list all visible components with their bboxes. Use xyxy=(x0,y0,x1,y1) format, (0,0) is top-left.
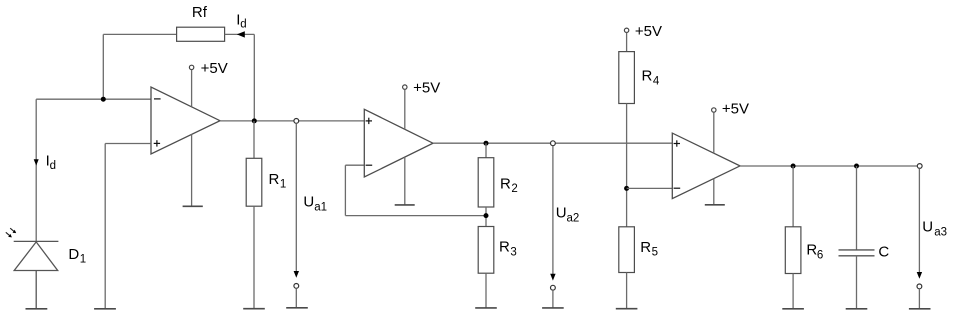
label R3 xyxy=(499,239,517,259)
wire U1 plus input to ground xyxy=(104,144,106,309)
U2 minus pin xyxy=(366,164,373,166)
label D1 xyxy=(68,246,86,266)
ground below R5 xyxy=(616,308,638,310)
junction node A dot xyxy=(101,97,106,102)
node Ua3 terminal circle xyxy=(917,164,922,169)
label Ua2 xyxy=(556,205,580,225)
junction dot output U2 xyxy=(484,141,489,146)
wire to R6 xyxy=(792,166,794,227)
junction node B dot xyxy=(624,186,629,191)
label +5V (U2) xyxy=(413,80,440,97)
junction dot R2/R3 xyxy=(484,213,489,218)
label R4 xyxy=(642,68,660,88)
svg-text:D: D xyxy=(68,246,79,263)
svg-text:d: d xyxy=(240,19,246,31)
wire node B to U3 inverting input xyxy=(627,187,673,189)
wire Ua1 measure line xyxy=(295,123,297,271)
ground below U1 plus wire xyxy=(94,308,116,310)
ground below Ua2 xyxy=(542,307,564,309)
svg-text:d: d xyxy=(50,160,56,172)
svg-text:R: R xyxy=(640,239,651,256)
U2 plus pin xyxy=(366,118,372,124)
ground below D1 xyxy=(26,308,48,310)
label +5V (U1) xyxy=(201,60,228,77)
ground below R3 xyxy=(475,307,497,309)
wire feedback vertical up xyxy=(102,34,104,99)
node Ua1 terminal circle xyxy=(294,119,299,124)
resistor R6 xyxy=(785,227,801,274)
svg-text:R: R xyxy=(500,175,511,192)
ground below C xyxy=(846,308,868,310)
ground below R1 xyxy=(243,308,265,310)
wire Ua2 bottom to ground xyxy=(552,290,554,307)
wire R5 to ground xyxy=(626,273,628,309)
wire U1 to ground xyxy=(191,134,193,206)
svg-text:4: 4 xyxy=(653,76,660,88)
svg-text:R: R xyxy=(499,239,510,256)
label Ua3 xyxy=(922,219,947,239)
wire U2 to ground xyxy=(404,157,406,205)
label Id (top) xyxy=(236,12,246,31)
svg-text:Rf: Rf xyxy=(192,4,208,21)
U1 +5V supply circle xyxy=(189,65,193,69)
arrow Ua3 down xyxy=(917,272,922,279)
terminal circle Ua2 bottom xyxy=(551,285,556,290)
wire U2 feedback from inverting input xyxy=(345,165,486,215)
wire U1 supply xyxy=(191,70,193,107)
ground below Ua1 xyxy=(286,307,308,309)
label R1 xyxy=(269,171,287,191)
wire R4 down across input to node B xyxy=(626,104,628,227)
wire R1 to ground xyxy=(253,206,255,308)
ground below U1 xyxy=(183,205,203,207)
resistor R1 xyxy=(246,158,262,206)
arrow Id into Rf (points left) xyxy=(237,31,245,37)
op-amp U1 xyxy=(151,87,220,154)
svg-text:a2: a2 xyxy=(567,212,580,224)
ground below Ua3 xyxy=(909,308,931,310)
label +5V (R4) xyxy=(635,23,662,40)
wire Rf right to vertical xyxy=(225,33,255,35)
svg-text:+5V: +5V xyxy=(413,80,440,97)
svg-text:R: R xyxy=(642,68,653,85)
light arrow 1 into D1 xyxy=(10,228,16,233)
terminal circle Ua3 bottom xyxy=(917,284,922,289)
label R6 xyxy=(806,242,823,262)
op-amp U2 xyxy=(364,109,433,177)
U3 +5V supply circle xyxy=(712,108,716,112)
arrow Id current down xyxy=(34,159,39,165)
wire to R2 xyxy=(485,143,487,158)
wire Ua3 measure line xyxy=(918,168,920,272)
resistor R5 xyxy=(619,227,635,273)
U1 minus pin xyxy=(154,98,161,100)
U3 minus pin xyxy=(674,187,681,189)
resistor R2 xyxy=(478,158,494,207)
terminal circle Ua1 bottom xyxy=(294,284,299,289)
wire feedback right vertical down to output node xyxy=(253,34,255,121)
wire R3 to ground xyxy=(485,273,487,307)
svg-text:5: 5 xyxy=(652,247,658,259)
svg-text:a3: a3 xyxy=(934,227,947,239)
wire Ua1 bottom to ground xyxy=(295,288,297,307)
wire U1 output net Ua1 xyxy=(220,120,364,122)
wire diode vertical xyxy=(35,99,37,241)
svg-text:1: 1 xyxy=(280,179,286,191)
svg-text:+5V: +5V xyxy=(722,101,749,118)
label Rf xyxy=(192,4,208,21)
resistor Rf xyxy=(177,27,225,41)
svg-text:R: R xyxy=(806,242,817,259)
wire U2 supply xyxy=(404,89,406,129)
svg-text:+5V: +5V xyxy=(201,60,228,77)
wire R2 to junction xyxy=(485,207,487,227)
wire to R1 xyxy=(253,121,255,158)
ground below R6 xyxy=(782,308,804,310)
svg-text:2: 2 xyxy=(511,183,517,195)
wire C to ground xyxy=(856,256,858,309)
svg-text:U: U xyxy=(303,194,314,211)
ground below U3 xyxy=(705,204,725,206)
svg-text:R: R xyxy=(269,171,280,188)
wire to capacitor C xyxy=(856,166,858,250)
label +5V (U3) xyxy=(722,101,749,118)
svg-text:a1: a1 xyxy=(314,202,327,214)
junction dot output U1 xyxy=(252,118,257,123)
svg-text:C: C xyxy=(878,243,889,260)
wire node A horizontal to U1 inverting input xyxy=(36,98,151,100)
arrow Ua2 down xyxy=(550,274,555,281)
node Ua2 terminal circle xyxy=(551,141,556,146)
wire U3 supply xyxy=(713,112,715,153)
U2 +5V supply circle xyxy=(403,85,407,89)
U3 plus pin xyxy=(674,140,680,146)
U1 plus pin xyxy=(154,140,160,146)
wire R6 to ground xyxy=(792,274,794,309)
wire U3 to ground xyxy=(713,179,715,205)
wire feedback top to Rf xyxy=(103,33,176,35)
svg-text:U: U xyxy=(556,205,567,222)
resistor R3 xyxy=(478,227,494,274)
label C xyxy=(878,243,889,260)
svg-text:U: U xyxy=(922,219,933,236)
svg-text:3: 3 xyxy=(510,247,516,259)
wire U3 output net Ua3 xyxy=(740,165,920,167)
wire +5V to R4 xyxy=(626,33,628,52)
svg-text:1: 1 xyxy=(80,254,86,266)
light arrow 2 into D1 xyxy=(6,232,12,237)
svg-text:6: 6 xyxy=(817,249,823,261)
label R5 xyxy=(640,239,658,259)
R4 +5V supply circle xyxy=(624,28,628,32)
wire Ua2 measure line xyxy=(552,146,554,275)
junction dot R6 tap xyxy=(791,164,796,169)
photodiode D1 xyxy=(14,241,59,308)
label R2 xyxy=(500,175,518,195)
label Id (left) xyxy=(46,153,56,172)
ground below U2 xyxy=(395,204,415,206)
wire U2 output net Ua2 xyxy=(433,142,672,144)
wire Ua3 bottom to ground xyxy=(918,289,920,309)
junction dot C tap xyxy=(854,164,859,169)
label Ua1 xyxy=(303,194,327,214)
op-amp U3 xyxy=(672,133,740,199)
svg-text:+5V: +5V xyxy=(635,23,662,40)
wire U1 non-inverting input xyxy=(105,143,151,145)
arrow Ua1 down xyxy=(294,271,299,278)
capacitor C xyxy=(839,250,875,256)
resistor R4 xyxy=(619,52,635,104)
